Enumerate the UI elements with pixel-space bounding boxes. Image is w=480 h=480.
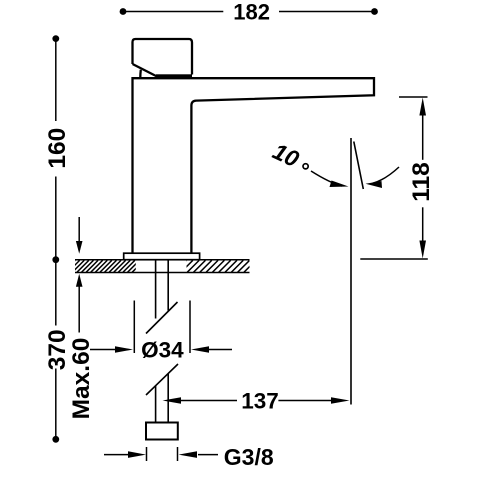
svg-text:370: 370 (44, 329, 71, 370)
svg-text:182: 182 (233, 0, 270, 24)
svg-text:160: 160 (44, 128, 71, 169)
svg-text:Ø34: Ø34 (141, 338, 184, 363)
svg-text:G3/8: G3/8 (224, 444, 274, 470)
svg-text:118: 118 (408, 162, 435, 202)
svg-text:137: 137 (241, 388, 279, 413)
